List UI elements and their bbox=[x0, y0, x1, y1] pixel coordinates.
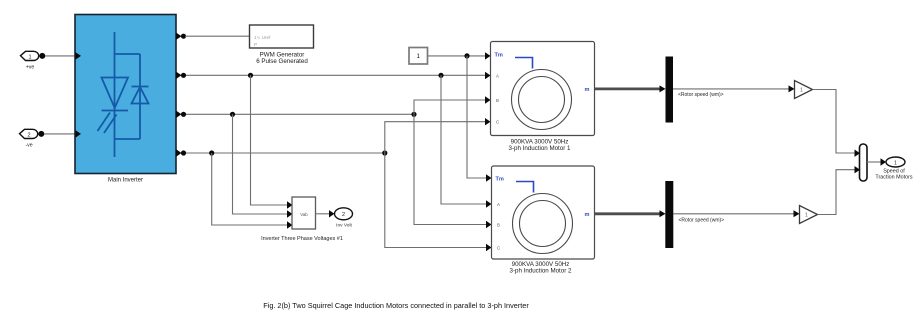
junction dot after input 2 bbox=[38, 131, 44, 137]
svg-text:C: C bbox=[496, 120, 499, 125]
junction phase B split bbox=[411, 112, 416, 117]
wire phase C down to motor2 C bbox=[385, 153, 487, 248]
voltage measurement block bbox=[292, 197, 316, 229]
wire phase B down to voltage measure in2 bbox=[233, 114, 288, 214]
svg-text:B: B bbox=[496, 98, 499, 103]
voltage measurement block inputs arrows bbox=[287, 201, 293, 228]
wire mux to outport 1 bbox=[867, 161, 882, 163]
svg-text:Traction Motors: Traction Motors bbox=[875, 175, 913, 181]
svg-text:A: A bbox=[496, 74, 499, 79]
motor1 block (induction machine) bbox=[491, 42, 595, 136]
svg-text:<Rotor speed (wm)>: <Rotor speed (wm)> bbox=[678, 92, 724, 98]
wire phase C horizontal bbox=[186, 152, 385, 154]
motor1 output bus (thick) bbox=[595, 88, 662, 91]
svg-text:m: m bbox=[585, 212, 590, 218]
arrow into gain2 bbox=[794, 210, 800, 217]
wire constant to motor1 Tm bbox=[428, 55, 486, 57]
svg-text:1∿ Uref: 1∿ Uref bbox=[254, 35, 271, 40]
inverter right port B bbox=[176, 111, 186, 118]
PWM generator block bbox=[250, 25, 314, 48]
wire phase A down to motor2 A bbox=[441, 75, 487, 204]
wire phase A down to voltage measure in1 bbox=[251, 75, 288, 205]
bus selector 2 (vertical bar) bbox=[665, 181, 673, 248]
svg-text:Inverter Three Phase Voltages: Inverter Three Phase Voltages #1 bbox=[261, 236, 343, 242]
svg-text:C: C bbox=[497, 246, 500, 251]
svg-text:+ve: +ve bbox=[26, 65, 35, 71]
bus selector 1 (vertical bar) bbox=[666, 57, 674, 123]
input port 2 (-ve) bbox=[20, 129, 38, 148]
wire bus selector1 to gain1 bbox=[673, 88, 790, 90]
svg-text:1: 1 bbox=[800, 88, 803, 94]
junction phase A to voltage measure bbox=[248, 73, 253, 78]
constant block Tm bbox=[409, 48, 428, 65]
arrow into bus selector 2 bbox=[660, 210, 666, 217]
motor2 input arrows bbox=[486, 174, 492, 251]
main inverter block bbox=[75, 15, 176, 174]
svg-text:m: m bbox=[585, 87, 590, 93]
inverter symbol top branch bbox=[115, 53, 141, 55]
junction Tm branch bbox=[464, 53, 469, 58]
thyristor cathode bar bbox=[102, 110, 129, 112]
inverter thyristor symbol main vertical bbox=[114, 32, 116, 157]
svg-text:6 Pulse Generated: 6 Pulse Generated bbox=[256, 58, 308, 65]
inverter symbol right branch vertical bbox=[139, 54, 141, 139]
motor2 output bus (thick) bbox=[595, 212, 662, 215]
motor2 block (induction machine) bbox=[492, 166, 595, 259]
svg-text:A: A bbox=[497, 202, 500, 207]
wire gain1 to mux input1 bbox=[813, 90, 856, 154]
inverter left port arrow 2 bbox=[76, 130, 82, 137]
motor1 input arrows bbox=[485, 52, 491, 125]
wire phase B horizontal bbox=[186, 113, 414, 115]
diode triangle bbox=[132, 87, 149, 104]
wire phase A horizontal bbox=[186, 74, 486, 76]
svg-text:2: 2 bbox=[27, 132, 30, 138]
outport 1 oval (speed) bbox=[886, 157, 905, 167]
wire input1 to inverter bbox=[45, 55, 75, 57]
arrow into gain1 bbox=[789, 85, 795, 92]
svg-text:Inv Volt: Inv Volt bbox=[336, 223, 352, 229]
svg-text:Fig. 2(b) Two Squirrel Cage In: Fig. 2(b) Two Squirrel Cage Induction Mo… bbox=[263, 301, 529, 310]
wire phase C up to motor1 C bbox=[385, 122, 486, 153]
outport 2 oval (Inv Volt) bbox=[335, 208, 353, 229]
gain2 triangle bbox=[800, 206, 818, 224]
svg-text:1: 1 bbox=[894, 160, 897, 166]
svg-text:3-ph Induction Motor 1: 3-ph Induction Motor 1 bbox=[509, 145, 571, 152]
thyristor triangle bbox=[102, 78, 129, 109]
mux input arrows bbox=[855, 150, 861, 174]
inverter right port g (to PWM) bbox=[176, 33, 186, 40]
svg-text:1: 1 bbox=[805, 213, 808, 219]
inverter symbol bottom branch bbox=[115, 138, 141, 140]
wire Tm branch down to motor2 Tm bbox=[467, 56, 487, 178]
svg-text:3-ph Induction Motor 2: 3-ph Induction Motor 2 bbox=[510, 267, 572, 274]
gain1 triangle bbox=[795, 81, 813, 99]
input port 1 (+ve) bbox=[21, 51, 39, 70]
mux block bbox=[860, 144, 868, 181]
svg-text:Tm: Tm bbox=[496, 177, 504, 183]
inverter right port C bbox=[176, 149, 186, 156]
inverter right port A bbox=[176, 72, 186, 79]
svg-text:-ve: -ve bbox=[25, 143, 32, 149]
svg-text:1: 1 bbox=[28, 54, 31, 60]
svg-text:B: B bbox=[497, 223, 500, 228]
wire phase B up to motor1 B bbox=[414, 100, 486, 114]
arrow into bus selector 1 bbox=[660, 85, 666, 92]
junction phase A to motor2 bbox=[438, 73, 443, 78]
svg-text:2: 2 bbox=[342, 212, 345, 218]
junction phase C split bbox=[382, 150, 387, 155]
arrow into outport 1 bbox=[881, 158, 887, 165]
svg-text:P: P bbox=[254, 42, 257, 47]
wire voltage block to outport 2 bbox=[316, 213, 331, 215]
diode bar bbox=[132, 86, 149, 88]
svg-text:<Rotor speed (wm)>: <Rotor speed (wm)> bbox=[679, 218, 725, 224]
junction dot after input 1 bbox=[39, 53, 45, 59]
wire bus selector2 to gain2 bbox=[673, 213, 795, 215]
arrow into outport 2 bbox=[329, 210, 335, 217]
inverter left port arrow 1 bbox=[76, 52, 82, 59]
svg-text:Vab: Vab bbox=[300, 212, 308, 217]
svg-text:Main Inverter: Main Inverter bbox=[108, 177, 143, 183]
wire phase B down to motor2 B bbox=[414, 114, 487, 224]
svg-text:Speed of: Speed of bbox=[883, 168, 905, 174]
junction phase B to voltage measure bbox=[230, 112, 235, 117]
thyristor gate slashes bbox=[98, 113, 117, 134]
svg-text:Tm: Tm bbox=[495, 53, 503, 59]
wire phase C down to voltage measure in3 bbox=[212, 153, 287, 225]
junction phase C to voltage measure bbox=[209, 150, 214, 155]
wire gain2 to mux input2 bbox=[818, 170, 856, 215]
wire input2 to inverter bbox=[44, 133, 75, 135]
wire inverter g to PWM generator bbox=[185, 35, 249, 37]
